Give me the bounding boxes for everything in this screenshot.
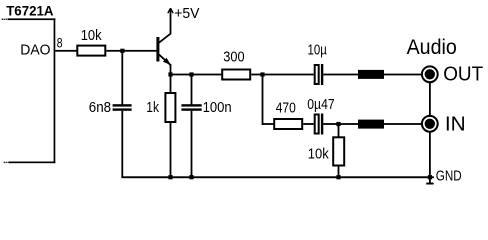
node B emitter junction dot [168, 72, 172, 76]
node C junction dot [189, 72, 193, 76]
ground rail junction dot at 10k row2 [336, 175, 340, 179]
svg-text:OUT: OUT [443, 63, 483, 86]
svg-text:470: 470 [276, 101, 296, 117]
IC U1 top edge dotted continuation [2, 19, 3, 20]
svg-text:10µ: 10µ [308, 43, 328, 59]
OUT jack center pin [425, 69, 435, 79]
IN jack outer ring [422, 116, 438, 132]
transistor Q1 collector diagonal [159, 33, 171, 43]
resistor 300 [222, 70, 250, 80]
IC U1 bottom edge dotted continuation [4, 162, 5, 163]
wire node C to R 300 [192, 74, 222, 76]
node D junction dot [260, 72, 264, 76]
wire pin 8 to R 10k [55, 50, 76, 52]
transistor Q1 collector vertical wire [170, 10, 172, 34]
svg-text:IN: IN [445, 113, 466, 136]
capacitor 6n8 top wire [121, 51, 123, 104]
IC U1 top edge [8, 18, 56, 20]
ground terminal tick [426, 183, 433, 185]
wire R 300 to node D [251, 74, 314, 76]
svg-text:10k: 10k [81, 28, 103, 44]
wire L1 to OUT jack [384, 74, 421, 76]
svg-text:6n8: 6n8 [89, 100, 111, 116]
svg-text:T6721A: T6721A [6, 3, 53, 19]
capacitor 0u47 negative plate (bar) [321, 114, 323, 135]
resistor 10k (base) [77, 46, 105, 56]
node E junction dot [336, 122, 340, 126]
capacitor 6n8 plates [113, 104, 132, 106]
OUT jack outer ring [422, 66, 438, 82]
transistor Q1 emitter diagonal [159, 55, 170, 65]
ground rail junction dot at 1k [168, 175, 172, 179]
svg-text:300: 300 [223, 49, 244, 65]
svg-text:+5V: +5V [174, 5, 199, 22]
transistor Q1 emitter arrowhead [163, 58, 171, 65]
ferrite bead L2 [358, 120, 384, 129]
svg-text:10k: 10k [308, 146, 330, 162]
wire node D down to row 2 [262, 75, 264, 126]
resistor 10k (row2) [333, 137, 344, 165]
wire C 10u to ferrite bead L1 [323, 74, 358, 76]
IC U1 right edge [54, 18, 56, 163]
node A junction dot [120, 49, 124, 53]
+5V arrowhead [168, 8, 171, 13]
svg-text:100n: 100n [203, 100, 232, 116]
capacitor 0u47 positive plate (open box) [315, 115, 319, 134]
resistor 1k top wire [170, 75, 172, 93]
resistor 1k bottom wire [170, 123, 172, 177]
IN jack center pin [425, 119, 435, 129]
svg-text:DAO: DAO [20, 42, 50, 58]
transistor Q1 base bar [156, 37, 159, 62]
svg-text:0µ47: 0µ47 [307, 97, 334, 113]
resistor 470 [274, 119, 302, 129]
capacitor 100n bottom wire [191, 111, 193, 177]
resistor 1k [165, 93, 175, 122]
wire R 470 to C 0u47 [303, 123, 314, 125]
wire C 0u47 to node E [323, 123, 358, 125]
svg-text:GND: GND [436, 168, 462, 185]
capacitor 10u positive plate (open box) [315, 65, 319, 84]
ground rail junction dot at 100n [189, 175, 193, 179]
node F ground junction dot [428, 175, 432, 179]
resistor 10k (row2) top wire [338, 125, 340, 138]
transistor Q1 emitter vertical wire [170, 64, 172, 75]
resistor 10k (row2) bottom wire [338, 166, 340, 178]
wire node D to R 470 [263, 123, 275, 125]
wire OUT jack sleeve to IN jack sleeve [429, 82, 431, 116]
ferrite bead L1 [358, 70, 384, 79]
wire node B to node C [171, 74, 192, 76]
svg-text:8: 8 [57, 35, 63, 50]
wire L2 to IN jack [384, 123, 421, 125]
svg-text:Audio: Audio [407, 36, 457, 59]
wire IN jack sleeve to ground rail [429, 132, 431, 183]
svg-text:1k: 1k [146, 100, 159, 116]
capacitor 100n plates [181, 104, 201, 106]
IC U1 bottom edge [9, 162, 55, 164]
capacitor 100n top wire [191, 75, 193, 104]
wire R 10k to node A [106, 50, 156, 52]
ground rail [121, 176, 434, 178]
capacitor 6n8 bottom wire [121, 111, 123, 177]
capacitor 10u negative plate (bar) [321, 64, 323, 85]
